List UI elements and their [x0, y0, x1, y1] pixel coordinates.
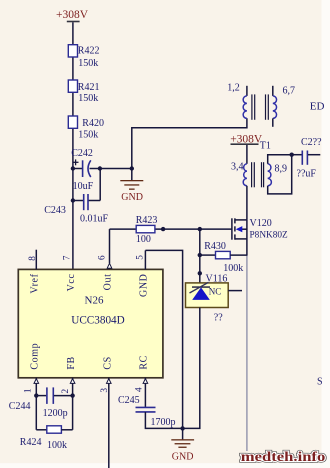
capacitor C244 — [9, 387, 73, 419]
wire main rail — [72, 22, 74, 270]
transformer T1 core top — [252, 94, 268, 119]
pin 8 Vref — [28, 250, 41, 294]
power +308V top — [56, 9, 89, 22]
pin 3 CS — [100, 356, 114, 468]
svg-text:100k: 100k — [47, 440, 67, 451]
node junction gnd — [180, 426, 184, 430]
svg-text:UCC3804D: UCC3804D — [71, 315, 124, 327]
node junction dots C242 — [71, 166, 134, 202]
wire drain — [246, 186, 248, 220]
svg-text:8: 8 — [28, 256, 38, 261]
svg-text:C242: C242 — [71, 148, 93, 159]
pin 2 FB — [61, 356, 77, 430]
transformer T1 secondary 8,9 — [268, 163, 287, 186]
svg-text:Vref: Vref — [30, 273, 41, 293]
wire pin5 gnd bus — [145, 250, 182, 428]
svg-text:C243: C243 — [44, 205, 66, 216]
svg-text:??: ?? — [214, 313, 223, 324]
svg-text:ED: ED — [310, 101, 325, 113]
svg-text:100: 100 — [136, 234, 151, 245]
wire gate — [155, 228, 232, 230]
pin 6 Out — [97, 255, 113, 290]
svg-text:R423: R423 — [136, 215, 158, 226]
transformer T1 secondary 6,7 — [273, 85, 295, 126]
svg-text:6,7: 6,7 — [283, 85, 296, 96]
svg-text:CS: CS — [103, 356, 114, 369]
pin 4 RC — [134, 355, 149, 407]
svg-text:4: 4 — [134, 387, 144, 392]
svg-text:150k: 150k — [78, 58, 98, 69]
svg-text:S: S — [317, 377, 323, 388]
ground GND top — [120, 169, 143, 204]
svg-text:150k: 150k — [78, 130, 98, 141]
svg-text:GND: GND — [139, 274, 150, 297]
svg-text:??uF: ??uF — [297, 168, 317, 179]
svg-text:GND: GND — [172, 451, 194, 462]
diode module V116 — [186, 274, 243, 324]
background light bottom strip — [0, 463, 330, 468]
svg-text:C245: C245 — [118, 395, 140, 406]
svg-text:5: 5 — [136, 255, 146, 260]
svg-text:3: 3 — [100, 388, 110, 393]
capacitor C242 — [71, 148, 132, 192]
resistor R424 — [20, 426, 73, 451]
svg-text:FB: FB — [66, 356, 77, 369]
resistor R421 — [68, 80, 99, 104]
svg-text:Out: Out — [103, 274, 114, 291]
svg-text:150k: 150k — [78, 93, 98, 104]
svg-text:R430: R430 — [204, 241, 226, 252]
svg-text:GND: GND — [121, 192, 143, 203]
background light right strip — [322, 0, 330, 468]
svg-text:Vcc: Vcc — [66, 274, 77, 292]
svg-text:8,9: 8,9 — [275, 163, 288, 174]
svg-text:0.01uF: 0.01uF — [80, 213, 109, 224]
svg-text:medteh.info: medteh.info — [241, 449, 326, 464]
wire V116 branch — [199, 229, 201, 283]
svg-text:NC: NC — [209, 287, 222, 297]
transformer T1 primary 3,4 — [231, 162, 247, 186]
svg-text:P8NK80Z: P8NK80Z — [250, 230, 289, 240]
resistor R420 — [68, 116, 104, 141]
svg-text:1: 1 — [24, 388, 34, 393]
IC U N26 UCC3804D — [18, 269, 163, 377]
ground GND bottom — [171, 428, 194, 462]
power +308V mid — [230, 134, 271, 164]
wire gnd node to transformer — [132, 118, 247, 168]
svg-text:C244: C244 — [9, 401, 31, 412]
svg-text:7: 7 — [63, 255, 73, 260]
transistor V120 — [232, 218, 288, 256]
svg-text:C2??: C2?? — [301, 137, 322, 148]
svg-text:R420: R420 — [82, 118, 104, 129]
svg-text:R422: R422 — [78, 46, 100, 57]
svg-text:6: 6 — [97, 255, 107, 260]
svg-text:Comp: Comp — [30, 343, 41, 370]
svg-text:2: 2 — [61, 389, 71, 394]
node junctions V116 branch — [198, 253, 202, 276]
wire secondary loop — [268, 155, 292, 194]
svg-text:10uF: 10uF — [73, 181, 94, 192]
transformer T1 core bottom — [252, 162, 264, 187]
svg-text:+308V: +308V — [56, 9, 89, 21]
node junctions C244 — [34, 393, 75, 397]
watermark medteh.info — [241, 449, 326, 464]
node junctions gate — [161, 227, 202, 231]
transformer T1 primary 1,2 — [227, 82, 247, 118]
svg-text:1,2: 1,2 — [227, 82, 240, 93]
svg-text:100k: 100k — [223, 263, 243, 274]
svg-text:T1: T1 — [260, 141, 271, 152]
wire V116 to gnd node — [183, 308, 200, 429]
resistor R423 — [110, 215, 158, 263]
pin 5 GND — [136, 250, 150, 297]
svg-text:V120: V120 — [250, 218, 272, 229]
svg-text:1700p: 1700p — [151, 417, 176, 428]
wire source (light) — [246, 256, 248, 451]
capacitor C2?? — [292, 137, 322, 179]
pin 7 Vcc — [63, 255, 77, 291]
svg-text:RC: RC — [139, 355, 150, 370]
svg-text:3,4: 3,4 — [231, 162, 244, 173]
capacitor C245 — [118, 395, 183, 428]
node junction secondary — [290, 153, 294, 157]
svg-text:1200p: 1200p — [43, 408, 68, 419]
capacitor C243 — [44, 169, 108, 225]
svg-text:R421: R421 — [78, 82, 100, 93]
pin 1 Comp — [24, 343, 41, 430]
resistor R430 — [200, 241, 247, 274]
svg-text:N26: N26 — [85, 295, 104, 307]
resistor R422 — [68, 45, 99, 69]
svg-text:R424: R424 — [20, 437, 42, 448]
